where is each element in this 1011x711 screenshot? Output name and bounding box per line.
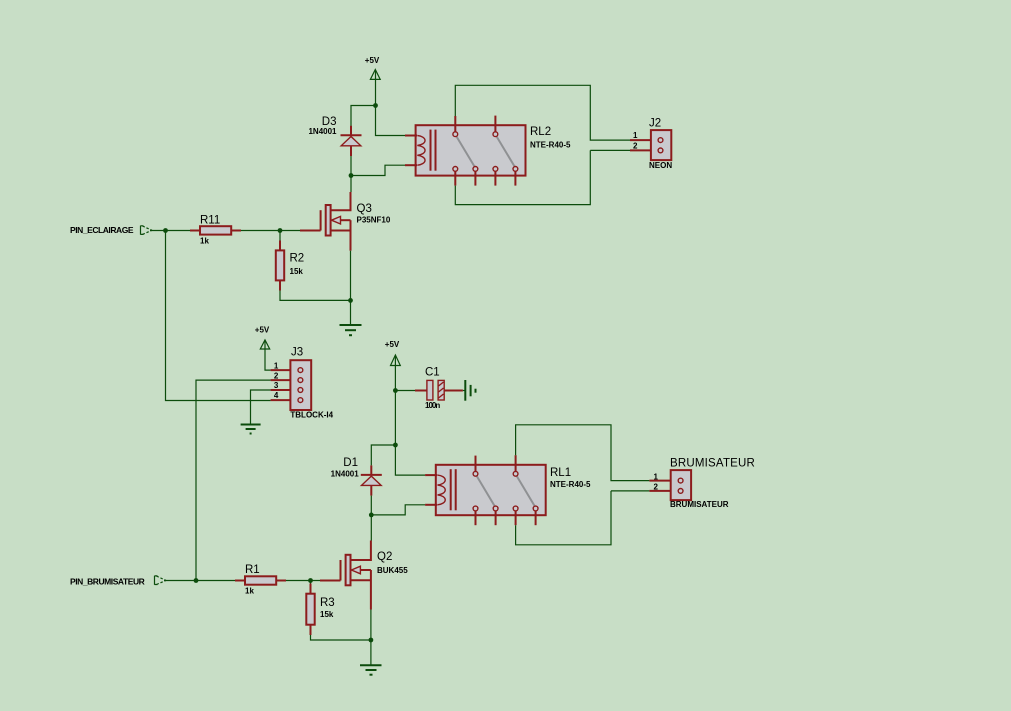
wire node to D3 top: [351, 106, 376, 127]
svg-text:1N4001: 1N4001: [331, 470, 360, 479]
connector J2: [630, 117, 672, 170]
svg-text:P35NF10: P35NF10: [357, 216, 391, 225]
svg-text:+5V: +5V: [365, 56, 380, 65]
wire RL1 contact to BRUMISATEUR pin1 loop: [516, 425, 650, 481]
connector J1 BRUMISATEUR: [649, 458, 755, 510]
node G junction: [393, 443, 398, 448]
wire +5V to node: [375, 71, 377, 106]
node J junction: [308, 578, 313, 583]
svg-text:+5V: +5V: [385, 340, 400, 349]
svg-text:1k: 1k: [200, 237, 209, 246]
capacitor C1: [395, 366, 463, 410]
svg-text:BRUMISATEUR: BRUMISATEUR: [670, 500, 729, 509]
svg-text:3: 3: [274, 381, 279, 390]
power +5V C1: [385, 340, 401, 366]
ground right of C1: [465, 380, 475, 401]
svg-text:15k: 15k: [320, 610, 334, 619]
wire C1 to ground: [463, 390, 465, 392]
svg-text:2: 2: [654, 483, 659, 492]
terminal PIN_BRUMISATEUR: [70, 576, 166, 587]
svg-text:1: 1: [654, 472, 659, 481]
svg-text:NTE-R40-5: NTE-R40-5: [550, 480, 591, 489]
wire R3 bottom to node K: [311, 635, 371, 640]
svg-text:1k: 1k: [245, 586, 254, 595]
diode D3: [308, 116, 361, 156]
ground below Q2: [360, 665, 382, 674]
svg-text:D1: D1: [343, 457, 358, 469]
resistor R2: [276, 231, 304, 291]
svg-text:100n: 100n: [425, 401, 440, 410]
ground below Q3: [340, 325, 362, 335]
wire terminal to R1: [164, 580, 235, 582]
node C junction: [163, 228, 168, 233]
node B junction: [349, 173, 354, 178]
svg-text:NTE-R40-5: NTE-R40-5: [530, 141, 571, 150]
wire D1 bottom to node H: [370, 496, 372, 515]
power +5V J3: [255, 326, 270, 350]
svg-text:15k: 15k: [290, 267, 304, 276]
node A junction: [373, 103, 378, 108]
diode D1: [331, 457, 382, 496]
svg-text:NEON: NEON: [649, 161, 672, 170]
svg-text:PIN_BRUMISATEUR: PIN_BRUMISATEUR: [70, 577, 145, 587]
terminal PIN_ECLAIRAGE: [70, 225, 152, 235]
resistor R1: [235, 564, 286, 595]
svg-text:2: 2: [274, 371, 279, 380]
svg-text:R1: R1: [245, 564, 260, 576]
wire J3 pin3 to ground: [251, 390, 271, 424]
svg-text:R11: R11: [200, 215, 220, 227]
wire Q3 source to ground node: [350, 251, 352, 301]
node E junction: [348, 298, 353, 303]
wire +5V to J3 pin1: [265, 341, 271, 370]
svg-text:1N4001: 1N4001: [308, 127, 337, 136]
node H junction: [369, 513, 374, 518]
wire node to RL2 coil top: [376, 106, 406, 136]
transistor Q3: [300, 192, 391, 251]
node F junction: [393, 388, 398, 393]
ground below J3: [241, 425, 261, 434]
svg-text:1: 1: [274, 362, 279, 371]
node K junction: [369, 638, 374, 643]
svg-text:RL2: RL2: [530, 126, 551, 138]
wire J3 pin2 to bottom net: [196, 380, 271, 580]
svg-text:BRUMISATEUR: BRUMISATEUR: [670, 458, 755, 470]
wire node C down to J3 pin4: [166, 231, 271, 401]
wire D3 bottom to junction: [350, 156, 352, 176]
resistor R3: [306, 581, 334, 636]
wire junction to Q3 drain: [350, 176, 352, 193]
wire junction to RL2 coil bottom: [351, 165, 405, 175]
svg-text:R2: R2: [290, 253, 305, 265]
svg-text:PIN_ECLAIRAGE: PIN_ECLAIRAGE: [70, 225, 134, 235]
wire R2 bottom to node E: [280, 291, 351, 301]
wire node G to D1: [371, 445, 395, 465]
wire +5V down to RL1 coil: [395, 357, 425, 476]
wire node H to RL1 coil bottom: [371, 505, 425, 515]
resistor R11: [190, 215, 241, 246]
wire R11 to gate node: [241, 230, 300, 232]
svg-text:1: 1: [633, 131, 638, 140]
power +5V top: [365, 56, 380, 79]
svg-text:J2: J2: [649, 117, 661, 129]
relay RL2: [405, 116, 571, 186]
wire terminal to R11: [150, 230, 190, 232]
wire R1 to gate node: [286, 580, 320, 582]
connector J3: [271, 347, 334, 420]
node D junction: [278, 228, 283, 233]
wire J2 pin2 stub: [590, 149, 630, 151]
svg-text:C1: C1: [425, 366, 440, 378]
svg-text:4: 4: [274, 391, 279, 400]
wire RL2 contact to J2 pin1 loop: [455, 85, 630, 140]
transistor Q2: [320, 541, 408, 610]
svg-text:Q3: Q3: [357, 203, 372, 215]
wire J2 pin2 to RL2 bottom contact: [455, 150, 590, 204]
wire node K to ground: [370, 640, 372, 665]
wire BRUMISATEUR pin2 stub: [611, 490, 649, 492]
svg-text:+5V: +5V: [255, 326, 270, 335]
svg-text:J3: J3: [291, 347, 303, 359]
wire node H to Q2 drain: [370, 515, 372, 541]
svg-text:RL1: RL1: [550, 467, 571, 479]
svg-text:2: 2: [633, 141, 638, 150]
svg-text:TBLOCK-I4: TBLOCK-I4: [290, 410, 333, 419]
relay RL1: [425, 455, 591, 525]
svg-text:R3: R3: [320, 597, 335, 609]
wire pin2 to RL1 bottom contact: [516, 491, 611, 545]
wire Q2 source to ground node: [370, 610, 372, 641]
svg-text:BUK455: BUK455: [377, 566, 408, 575]
wire node E to ground: [350, 300, 352, 325]
node I junction: [194, 578, 199, 583]
svg-text:Q2: Q2: [377, 551, 392, 563]
